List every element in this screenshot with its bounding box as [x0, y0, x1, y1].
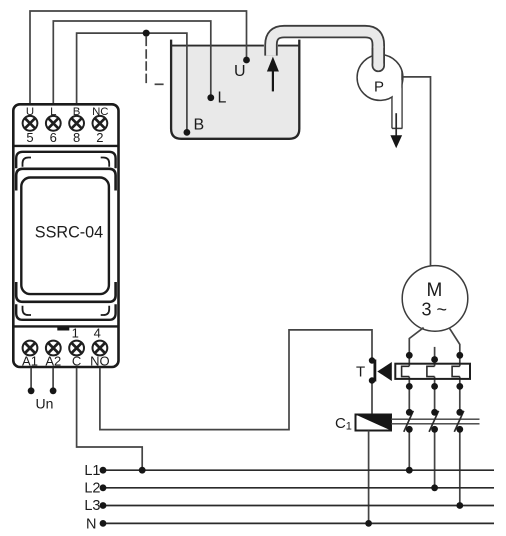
svg-text:U: U — [234, 63, 246, 80]
svg-text:C: C — [72, 353, 81, 368]
svg-text:B: B — [73, 106, 81, 118]
svg-text:A1: A1 — [22, 353, 38, 368]
svg-text:L2: L2 — [84, 481, 100, 497]
svg-text:C: C — [335, 415, 346, 432]
svg-text:1: 1 — [72, 325, 79, 340]
svg-text:1: 1 — [346, 421, 352, 433]
svg-text:L3: L3 — [84, 498, 100, 514]
svg-text:NO: NO — [90, 353, 110, 368]
svg-text:L: L — [50, 106, 56, 118]
svg-text:L: L — [218, 90, 227, 107]
svg-text:P: P — [374, 79, 384, 96]
svg-text:6: 6 — [50, 130, 57, 145]
svg-text:U: U — [26, 106, 34, 118]
svg-text:N: N — [86, 517, 96, 533]
svg-text:SSRC-04: SSRC-04 — [35, 224, 103, 242]
svg-text:Un: Un — [36, 396, 54, 412]
svg-text:M: M — [427, 280, 443, 301]
svg-text:2: 2 — [96, 130, 103, 145]
svg-text:L1: L1 — [84, 463, 100, 479]
svg-text:B: B — [194, 117, 205, 134]
svg-text:T: T — [356, 364, 365, 381]
svg-text:3 ~: 3 ~ — [422, 300, 448, 320]
svg-text:NC: NC — [92, 106, 108, 118]
svg-text:4: 4 — [94, 325, 101, 340]
svg-text:5: 5 — [26, 130, 33, 145]
svg-text:A2: A2 — [45, 353, 61, 368]
svg-text:8: 8 — [73, 130, 80, 145]
